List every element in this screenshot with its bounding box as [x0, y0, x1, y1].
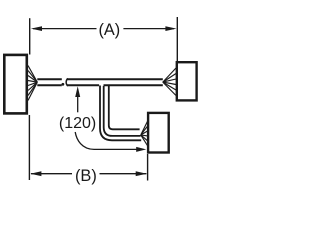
svg-text:(A): (A)	[98, 21, 120, 39]
svg-text:(120): (120)	[59, 115, 96, 132]
svg-text:(B): (B)	[75, 167, 97, 185]
